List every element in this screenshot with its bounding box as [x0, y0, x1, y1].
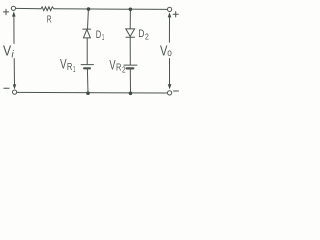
svg-text:D: D: [96, 29, 102, 41]
label VR1: [60, 56, 76, 75]
svg-text:R: R: [67, 62, 73, 73]
wire D1 branch bottom: [86, 69, 89, 93]
wire top rail left segment: [16, 7, 41, 9]
resistor R: [41, 7, 54, 11]
label VR2: [109, 56, 126, 74]
arrowhead Vo up: [168, 12, 172, 17]
arrowhead Vi up: [12, 11, 16, 16]
terminal bottom-left: [13, 90, 17, 94]
battery VR1 long plate: [81, 64, 93, 66]
junction node bottom D2: [129, 92, 133, 96]
svg-text:1: 1: [102, 32, 105, 42]
wire voltage arrow line Vo lower: [169, 59, 171, 85]
svg-text:2: 2: [145, 32, 149, 42]
terminal top-left: [11, 6, 15, 10]
junction node top D1: [87, 7, 91, 11]
junction node bottom D1: [86, 91, 90, 95]
plus sign Vi: [3, 9, 8, 15]
plus sign Vo: [173, 12, 178, 17]
terminal top-right: [168, 7, 172, 11]
minus sign Vo: [174, 90, 179, 92]
terminal bottom-right: [168, 91, 172, 95]
svg-text:R: R: [47, 15, 52, 26]
battery VR2 short plate: [127, 67, 134, 69]
battery VR1 short plate: [84, 67, 90, 69]
junction node top D2: [129, 7, 133, 11]
label D1: [96, 29, 105, 42]
svg-text:o: o: [167, 47, 172, 59]
diode D1 cathode bar: [83, 28, 91, 30]
svg-text:D: D: [138, 28, 144, 40]
wire voltage arrow line Vi lower: [13, 59, 15, 86]
battery VR2 long plate: [124, 64, 137, 66]
svg-text:R: R: [116, 63, 121, 74]
diode D1 triangle: [83, 29, 90, 38]
diode D2 cathode bar: [126, 36, 135, 38]
wire D1 branch top: [87, 9, 90, 29]
wire top rail right segment: [54, 8, 167, 11]
label Vo: [160, 44, 172, 60]
arrowhead Vi down: [13, 84, 16, 89]
diode D2 triangle: [126, 29, 135, 37]
svg-text:1: 1: [73, 65, 76, 74]
svg-text:V: V: [3, 44, 11, 60]
wire D2 branch bottom: [129, 70, 131, 94]
svg-text:2: 2: [122, 66, 126, 75]
label Vi: [3, 44, 14, 61]
wire voltage arrow line Vi upper: [13, 16, 15, 44]
wire D1 to battery: [86, 38, 88, 65]
wire voltage arrow line Vo upper: [168, 17, 170, 42]
arrowhead Vo down: [168, 84, 172, 89]
wire bottom rail: [17, 91, 168, 94]
minus sign Vi: [4, 87, 9, 89]
label D2: [138, 28, 149, 41]
wire D2 branch top: [129, 9, 131, 29]
wire D2 to battery: [129, 37, 131, 65]
